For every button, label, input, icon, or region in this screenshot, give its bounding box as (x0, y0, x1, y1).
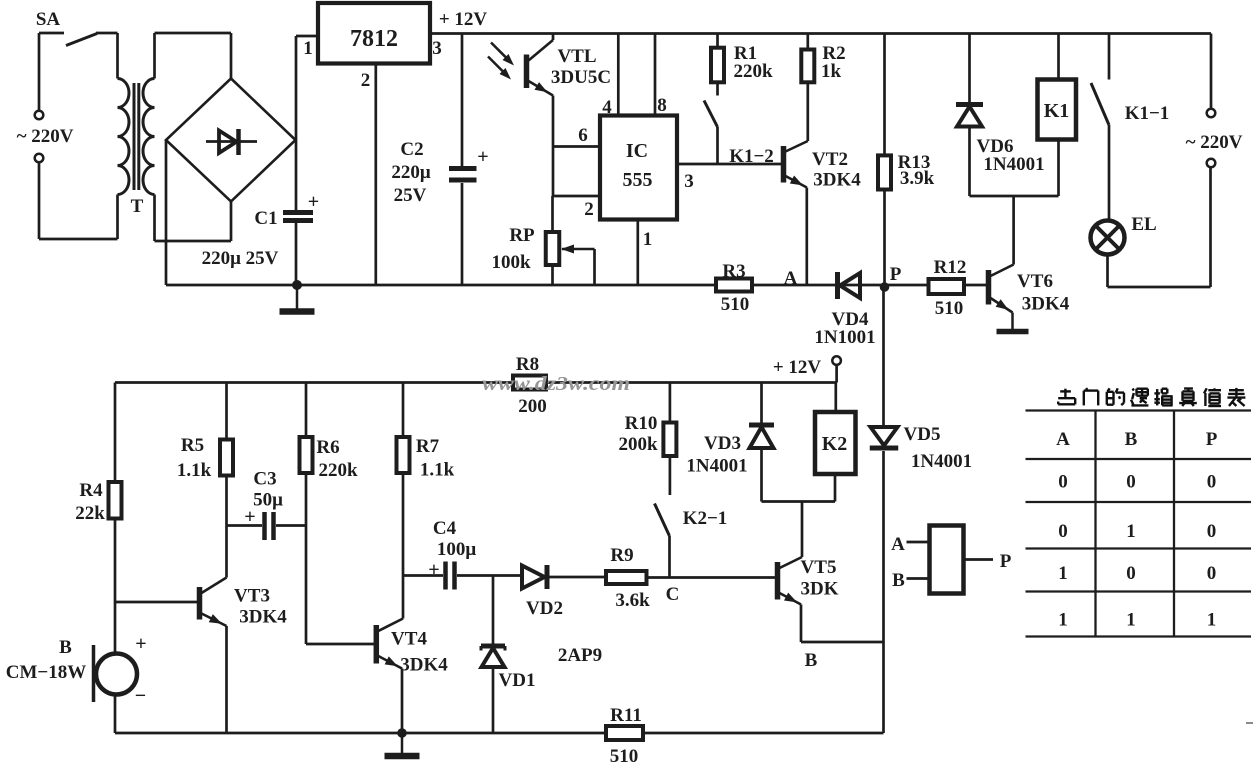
svg-text:+ 12V: + 12V (773, 357, 822, 378)
svg-text:P: P (890, 264, 902, 285)
svg-text:3DK4: 3DK4 (239, 607, 287, 628)
wire C4 left lead (403, 574, 443, 577)
svg-text:+: + (477, 146, 488, 168)
wire VT6 collector up (1012, 196, 1015, 265)
switch K2-1 lever (655, 504, 670, 537)
svg-text:K2−1: K2−1 (683, 508, 728, 529)
resistor R1 (711, 48, 724, 83)
svg-text:+ 12V: + 12V (439, 9, 488, 30)
wire K1-1 to lamp (1108, 125, 1111, 221)
svg-text:R6: R6 (316, 437, 339, 458)
switch SA lever (66, 34, 97, 46)
AND gate input B (907, 577, 930, 580)
svg-text:R10: R10 (625, 413, 658, 434)
svg-text:K1: K1 (1044, 100, 1070, 122)
svg-text:1N4001: 1N4001 (983, 154, 1044, 175)
switch K1-2 lever (704, 101, 718, 128)
svg-text:P: P (1000, 551, 1012, 572)
wire C2 lower lead (461, 183, 464, 285)
stray mark (1246, 722, 1253, 724)
wire C1 upper lead (295, 140, 298, 210)
wire K2 top lead (834, 383, 837, 413)
wire R10 bottom lead (669, 456, 672, 495)
node junction VT4 emitter (397, 728, 407, 738)
resistor R11 (606, 726, 643, 740)
svg-text:1: 1 (303, 38, 313, 59)
wire node P down (882, 289, 885, 427)
svg-text:R7: R7 (416, 436, 440, 457)
svg-text:0: 0 (1126, 472, 1136, 493)
svg-text:R5: R5 (181, 435, 204, 456)
svg-text:8: 8 (657, 95, 667, 116)
svg-text:1: 1 (1058, 610, 1068, 631)
wire main bottom rail (166, 284, 988, 287)
wire VT3 emitter down (225, 626, 228, 733)
svg-text:2: 2 (361, 70, 371, 91)
transistor VT5 (775, 562, 781, 600)
wire VD1 top lead (492, 576, 495, 645)
svg-text:A: A (784, 268, 798, 289)
transformer T core (133, 83, 136, 190)
wire lamp bottom (1106, 255, 1109, 288)
svg-text:+: + (135, 633, 146, 655)
terminal upper ~220V right (1207, 109, 1216, 118)
svg-text:200: 200 (518, 396, 547, 417)
wire top rail right drop (1210, 34, 1213, 109)
diode VD4 (835, 272, 840, 299)
wire VT5 collector up (801, 502, 804, 558)
svg-text:4: 4 (602, 97, 612, 118)
svg-text:1: 1 (1126, 610, 1136, 631)
transistor VT6 (986, 270, 992, 305)
svg-text:C1: C1 (254, 208, 277, 229)
wire VD3-K2 junction (762, 500, 836, 503)
wire SA bottom loop (38, 162, 41, 239)
svg-text:2: 2 (584, 199, 594, 220)
svg-text:+: + (428, 559, 439, 581)
resistor R10 (663, 423, 676, 457)
wire RP top lead (551, 196, 554, 232)
wire VTL collector lead (552, 34, 555, 41)
svg-text:1N1001: 1N1001 (814, 327, 875, 348)
wire bridge minus output down (165, 140, 168, 285)
svg-text:R9: R9 (610, 545, 633, 566)
wire VD3 bottom lead (760, 449, 763, 502)
svg-text:3DK4: 3DK4 (813, 170, 861, 191)
svg-text:1: 1 (1207, 610, 1217, 631)
svg-text:R11: R11 (610, 705, 642, 726)
svg-text:510: 510 (610, 746, 639, 763)
svg-text:K1−1: K1−1 (1125, 103, 1170, 124)
svg-text:IC: IC (626, 140, 648, 162)
ground below C1 (296, 285, 299, 312)
svg-text:0: 0 (1207, 472, 1217, 493)
wire C4 to VD2 (457, 574, 522, 577)
svg-text:3DU5C: 3DU5C (551, 67, 611, 88)
capacitor C3 (262, 512, 267, 540)
wire R7 top lead (402, 383, 405, 438)
AND gate box (930, 526, 964, 594)
node P junction (880, 282, 890, 292)
capacitor C2 (449, 166, 477, 171)
potentiometer RP (546, 232, 560, 265)
resistor R3 (716, 279, 752, 292)
AND gate input A (907, 541, 930, 544)
bridge rectifier diamond (166, 79, 296, 202)
svg-text:P: P (1206, 429, 1218, 450)
svg-text:1: 1 (643, 229, 653, 250)
wire R5 to VT3 collector (225, 476, 228, 578)
light arrow 2 into VTL (488, 57, 508, 77)
capacitor C1 (283, 210, 313, 215)
wire R13 top lead (883, 34, 886, 156)
svg-text:3.9k: 3.9k (900, 168, 935, 189)
svg-text:2AP9: 2AP9 (558, 645, 602, 666)
svg-text:B: B (892, 570, 905, 591)
svg-text:R12: R12 (934, 257, 967, 278)
svg-text:VD1: VD1 (499, 670, 536, 691)
resistor R7 (397, 437, 410, 473)
wire 555 pin1 down (636, 220, 639, 286)
wire terminal to rail (835, 365, 838, 383)
node junction bottom-left (292, 280, 302, 290)
svg-text:510: 510 (721, 294, 750, 315)
wire VD3 top lead (760, 383, 763, 423)
svg-text:220k: 220k (733, 61, 773, 82)
svg-text:R4: R4 (79, 480, 103, 501)
wire R1 top lead (716, 34, 719, 48)
svg-text:7812: 7812 (350, 26, 398, 52)
microphone B electrode bar (92, 645, 96, 702)
svg-text:VD3: VD3 (704, 433, 741, 454)
svg-text:1N4001: 1N4001 (911, 451, 972, 472)
relay K2 coil box (815, 412, 856, 474)
svg-text:K1−2: K1−2 (729, 146, 774, 167)
wire RP wiper down (593, 249, 596, 285)
svg-text:C3: C3 (253, 469, 276, 490)
wire K1 bottom lead (1057, 140, 1060, 197)
svg-text:T: T (131, 196, 144, 217)
wire K2-1 down to node C (668, 536, 671, 578)
phototransistor VTL (524, 55, 530, 89)
wire VD6-K1 junction to VT6 (970, 195, 1059, 198)
transformer T primary coil (118, 79, 130, 195)
diode VD3 (749, 423, 774, 428)
svg-text:0: 0 (1058, 472, 1068, 493)
svg-text:~ 220V: ~ 220V (17, 126, 74, 147)
wire VD2 to R9 (547, 576, 606, 579)
svg-text:EL: EL (1131, 214, 1156, 235)
svg-text:100k: 100k (491, 252, 531, 273)
lamp EL (1091, 221, 1125, 255)
svg-text:C: C (666, 584, 680, 605)
svg-text:RP: RP (509, 225, 535, 246)
wire +12V top rail (430, 32, 1211, 35)
svg-text:VD2: VD2 (526, 598, 563, 619)
diode VD5 (871, 427, 898, 446)
diode VD1 (481, 644, 505, 649)
wire R6 down to VT4 base (305, 473, 308, 644)
resistor R6 (300, 437, 313, 473)
svg-text:0: 0 (1207, 521, 1217, 542)
wire lower bottom rail (115, 732, 884, 735)
wire 555 pin4 (617, 34, 620, 116)
wire VT5 emitter to node B (800, 605, 803, 643)
svg-text:VT4: VT4 (391, 629, 427, 650)
diode VD6 (956, 102, 983, 107)
capacitor C4 (443, 562, 448, 590)
ground below VT6 (1011, 313, 1014, 332)
wire C2 upper lead (461, 34, 464, 167)
svg-text:VD5: VD5 (904, 424, 941, 445)
relay K1 coil box (1038, 80, 1077, 140)
terminal +12V lower (832, 356, 841, 365)
resistor R2 (801, 50, 814, 83)
svg-text:1k: 1k (821, 61, 842, 82)
svg-text:VT6: VT6 (1017, 271, 1053, 292)
svg-text:3DK4: 3DK4 (1022, 294, 1070, 315)
regulator U 7812 box (318, 3, 430, 64)
transistor VT4 (374, 625, 380, 664)
svg-text:SA: SA (36, 9, 61, 30)
wire VT2 emitter down to node A (805, 188, 808, 286)
wire primary top lead (116, 33, 119, 79)
wire right 220V return (1209, 167, 1212, 287)
svg-text:K2: K2 (822, 433, 848, 455)
terminal lower ~220V left (35, 154, 44, 163)
wire R13 bottom lead (883, 190, 886, 288)
wire bridge plus to 7812 pin1 (295, 36, 298, 140)
bridge diode symbol (206, 140, 257, 143)
svg-text:VT2: VT2 (812, 149, 848, 170)
resistor R12 (929, 279, 965, 294)
svg-text:50μ: 50μ (253, 490, 283, 511)
svg-text:6: 6 (578, 125, 588, 146)
wire VT4 emitter down (401, 669, 404, 734)
svg-text:3DK: 3DK (801, 579, 839, 600)
svg-text:A: A (1056, 429, 1070, 450)
wire R9 to VT5 base (647, 576, 777, 579)
terminal lower ~220V right (1207, 159, 1216, 168)
resistor R13 (878, 155, 891, 189)
wire R10 top lead (669, 383, 672, 423)
svg-text:0: 0 (1126, 563, 1136, 584)
wire SA left vertical + top lead (38, 33, 41, 111)
svg-text:R8: R8 (516, 354, 539, 375)
wire R2 bottom lead (806, 82, 809, 141)
light arrow 1 into VTL (491, 43, 511, 63)
svg-text:1N4001: 1N4001 (686, 456, 747, 477)
wire K2 bottom lead (834, 474, 837, 502)
transistor VT3 (197, 587, 203, 620)
wire R6 top lead (305, 383, 308, 438)
terminal upper ~220V left (35, 111, 44, 120)
wire C3 left lead (227, 524, 263, 527)
svg-text:220k: 220k (318, 460, 358, 481)
svg-text:220μ: 220μ (391, 162, 431, 183)
svg-text:VTL: VTL (557, 46, 596, 67)
svg-text:B: B (1125, 429, 1138, 450)
wire K1-1 stub from rail (1108, 34, 1111, 80)
svg-text:100μ: 100μ (437, 539, 477, 560)
wire secondary bottom to bridge (153, 195, 156, 242)
svg-text:B: B (805, 650, 818, 671)
wire VD6 top lead (968, 34, 971, 103)
svg-text:C2: C2 (400, 139, 423, 160)
wire VD5 to node B (882, 451, 885, 733)
svg-text:510: 510 (935, 298, 964, 319)
svg-text:555: 555 (623, 169, 653, 191)
svg-text:220μ 25V: 220μ 25V (202, 248, 279, 269)
svg-text:VT5: VT5 (801, 557, 837, 578)
resistor R8 (513, 376, 546, 390)
wire C3 right lead (276, 524, 306, 527)
wire VD6 bottom lead (968, 127, 971, 197)
wire 555 pin8 (654, 34, 657, 116)
AND gate output P (964, 558, 994, 561)
transformer T secondary coil (143, 79, 155, 195)
truth table title (AND-gate logic truth table) (1060, 390, 1071, 392)
svg-text:0: 0 (1058, 521, 1068, 542)
wire R4 to microphone (114, 519, 117, 654)
wire 555 pin3 to VT2 base (677, 163, 781, 166)
wire 555 pin2 (553, 195, 600, 198)
svg-text:3.6k: 3.6k (615, 590, 650, 611)
svg-text:25V: 25V (394, 185, 427, 206)
svg-text:1: 1 (1058, 563, 1068, 584)
wire lower +12V rail (115, 381, 837, 384)
svg-text:1.1k: 1.1k (177, 460, 212, 481)
svg-text:3DK4: 3DK4 (400, 655, 448, 676)
svg-text:3: 3 (684, 171, 694, 192)
microphone B (96, 654, 137, 695)
svg-text:22k: 22k (75, 503, 105, 524)
wire VTL emitter down (552, 96, 555, 197)
svg-text:C4: C4 (433, 518, 457, 539)
wire K1-2 to pin3 net (716, 127, 719, 164)
wire SA top to transformer primary (96, 32, 118, 35)
wire RP bottom lead (551, 265, 554, 285)
svg-text:A: A (891, 534, 905, 555)
wire primary bottom lead (116, 195, 119, 240)
svg-text:1.1k: 1.1k (420, 460, 455, 481)
svg-text:3: 3 (432, 38, 442, 59)
diode VD2 (522, 566, 545, 589)
switch K1-1 lever (1091, 83, 1109, 125)
svg-text:R3: R3 (722, 261, 745, 282)
RP wiper arrow (562, 248, 595, 251)
svg-text:+: + (308, 191, 319, 213)
svg-text:−: − (135, 685, 146, 707)
svg-text:1: 1 (1126, 521, 1136, 542)
svg-text:0: 0 (1207, 563, 1217, 584)
wire K1 top lead (1057, 34, 1060, 80)
svg-text:www.dz3w.com: www.dz3w.com (482, 373, 630, 395)
wire R1 bottom lead (716, 82, 719, 95)
wire VT4 collector up (402, 473, 405, 619)
truth table grid (1026, 409, 1252, 411)
svg-text:~ 220V: ~ 220V (1186, 132, 1243, 153)
wire C1 lower lead (295, 223, 298, 285)
op-amp timer IC 555 box (600, 116, 677, 220)
resistor R5 (220, 440, 233, 476)
wire mic bottom (114, 694, 117, 733)
resistor R9 (606, 571, 647, 584)
svg-text:VT3: VT3 (234, 586, 270, 607)
wire R2 top lead (806, 34, 809, 50)
ground below lower rail (401, 733, 404, 756)
svg-text:B: B (59, 637, 72, 658)
wire R5 top lead (225, 383, 228, 440)
wire 555 pin6 (553, 145, 600, 148)
wire 7812 pin2 down (374, 64, 377, 286)
svg-text:200k: 200k (618, 434, 658, 455)
svg-text:CM−18W: CM−18W (6, 662, 86, 683)
wire VD1 bottom lead (492, 669, 495, 734)
resistor R4 (109, 482, 122, 519)
wire secondary top to bridge (153, 33, 156, 79)
transistor VT2 (781, 146, 787, 183)
wire VT3 base (115, 601, 197, 604)
wire left branch down (114, 383, 117, 483)
